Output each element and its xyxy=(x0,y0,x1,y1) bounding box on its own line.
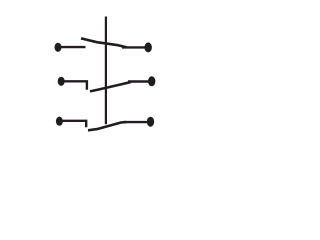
switch S3 right lead wire xyxy=(124,121,151,123)
switch S3 left terminal xyxy=(56,117,63,126)
switch S2 blade xyxy=(90,82,131,91)
switch S2 right lead wire xyxy=(128,80,152,82)
switch S2 right terminal xyxy=(148,76,155,86)
switch S1 left terminal xyxy=(55,43,62,52)
3-pole ganged switch schematic xyxy=(0,0,240,160)
switch S2 left lead wire xyxy=(61,81,87,90)
switch S1 blade xyxy=(81,38,127,47)
switch S2 left terminal xyxy=(58,77,65,86)
switch S3 left lead wire xyxy=(59,121,86,128)
switch S3 right terminal xyxy=(147,117,154,127)
switch S1 right lead wire xyxy=(122,46,148,48)
mechanical linkage line xyxy=(105,17,107,125)
switch S3 blade xyxy=(88,122,126,130)
switch S1 left lead wire xyxy=(58,46,86,48)
switch S1 right terminal xyxy=(145,42,152,52)
